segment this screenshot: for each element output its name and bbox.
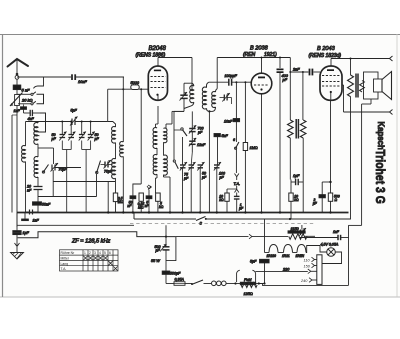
svg-text:70pF: 70pF — [59, 168, 68, 172]
svg-text:1150: 1150 — [291, 227, 300, 231]
wire avc junction — [90, 182, 115, 213]
field coil bypass link — [237, 270, 256, 282]
svg-text:5000: 5000 — [131, 81, 140, 85]
wire left return rail — [12, 115, 17, 213]
oscillator coil B (tuned) — [202, 82, 217, 212]
tube U1 B2048 — [148, 66, 167, 100]
svg-text:5: 5 — [104, 251, 106, 255]
svg-text:0,35A: 0,35A — [175, 278, 185, 282]
page left edge rule — [2, 34, 4, 297]
trimmer (tone corrector) — [299, 225, 306, 238]
switch lever (IF trim) — [96, 161, 101, 197]
svg-text:pF: pF — [197, 131, 203, 135]
wire osc section frame — [173, 125, 192, 169]
svg-text:ZF = 128,5 kHz: ZF = 128,5 kHz — [71, 239, 110, 245]
svg-text:20 kΩ: 20 kΩ — [21, 98, 33, 103]
capacitor 400pF — [277, 69, 284, 213]
variable capacitor C-gang 4 — [88, 132, 95, 141]
padder trimmer 75pF — [180, 162, 187, 213]
tuning coil L2 — [34, 122, 38, 158]
svg-text:1R230: 1R230 — [267, 254, 277, 258]
capacitor 50nF (block) — [33, 197, 42, 213]
padder trimmer 50pF b — [197, 162, 204, 213]
dashed screen line — [130, 222, 314, 224]
mains return line A — [17, 224, 362, 226]
pilot lamp 4,5V 0,05A — [322, 248, 342, 264]
svg-text:500µF: 500µF — [170, 272, 181, 276]
svg-text:240: 240 — [300, 279, 308, 283]
interstage transformer primary (zigzag) — [287, 58, 293, 180]
svg-text:B2048: B2048 — [149, 46, 167, 52]
switch contact (mid) — [235, 142, 239, 173]
capacitor 2nF (grid) — [289, 69, 320, 76]
wire coil tap — [38, 148, 54, 164]
svg-text:pF: pF — [201, 175, 207, 179]
pickup terminals T.A. — [235, 174, 239, 193]
svg-text:50nF: 50nF — [42, 203, 51, 207]
capacitor 100µµF (osc coupling) — [209, 79, 251, 86]
trimmer 12nF — [189, 138, 196, 152]
selector bar — [317, 255, 322, 285]
wire tube1 cathode to IF2 — [156, 106, 185, 129]
IF transformer 2 bottom windings — [148, 155, 170, 213]
capacitor 50nF (block, decoupling) — [130, 184, 141, 213]
svg-text:5 nF: 5 nF — [22, 88, 31, 93]
svg-text:1nF: 1nF — [33, 219, 40, 223]
bottom supply return — [258, 225, 349, 285]
heater chain arcs — [265, 219, 327, 253]
svg-text:pF: pF — [219, 175, 225, 179]
svg-text:110: 110 — [304, 258, 311, 262]
wire grid feed to tube1 — [108, 88, 149, 184]
output choke winding — [348, 59, 354, 220]
svg-text:5µF: 5µF — [250, 260, 257, 264]
resistor 5000 — [131, 85, 139, 90]
tuning gang: dashed coupling lines — [62, 141, 90, 213]
detector switch + trimmer 700pF — [181, 111, 196, 141]
trimmer 5pF — [70, 117, 108, 126]
capacitor (series on antenna coil bottom) — [26, 210, 39, 215]
svg-text:70pF: 70pF — [104, 170, 113, 174]
svg-text:5pF: 5pF — [71, 109, 78, 113]
oscillator trimmer B — [220, 93, 232, 104]
resistor 10kΩ (volume) — [225, 189, 237, 213]
decoupling line (stepped) — [18, 232, 176, 261]
capacitor 1nF (mains filter) — [300, 235, 349, 240]
svg-text:Ω: Ω — [335, 198, 338, 202]
voltage selector 240 — [300, 278, 317, 283]
IF transformer 1 primary lower — [112, 143, 116, 193]
svg-text:3: 3 — [94, 251, 96, 255]
svg-text:10nF: 10nF — [224, 120, 233, 124]
heater bus (lower) — [134, 213, 351, 221]
svg-text:6: 6 — [233, 138, 235, 142]
padder trimmer 50pF — [188, 162, 195, 213]
capacitor 1nF (block below pot) — [21, 105, 27, 114]
capacitor 5nF (black, mid) — [214, 134, 220, 166]
voltage selector 110 — [304, 257, 317, 262]
svg-text:Kapsch: Kapsch — [376, 122, 387, 150]
svg-text:10nF: 10nF — [78, 80, 87, 84]
resistor 0,15MΩ — [139, 193, 143, 213]
svg-text:1nF: 1nF — [14, 109, 21, 113]
tube V3 B2043 (output pentode) — [320, 66, 342, 100]
svg-text:pF: pF — [155, 249, 161, 253]
variable capacitor C-gang 1 — [59, 132, 66, 141]
IF transformer 1 secondary — [120, 77, 124, 213]
capacitor 5nF (antenna series) — [13, 85, 21, 94]
variable capacitor C-gang 3 — [79, 132, 86, 141]
capacitor 5nF (block, cathode) — [146, 186, 152, 213]
trimmer 70pF (IF) — [101, 160, 113, 169]
table row labels — [61, 251, 112, 271]
svg-text:4: 4 — [99, 251, 101, 255]
IF transformer 1 primary upper — [108, 89, 116, 143]
ground bus feeder (left, with 1µF) — [16, 213, 18, 231]
svg-text:4nF: 4nF — [28, 117, 35, 121]
oscillator coil A — [174, 83, 194, 125]
svg-text:MΩ: MΩ — [138, 205, 144, 209]
svg-text:1: 1 — [84, 251, 86, 255]
wire antenna node to coupling cap — [17, 76, 71, 78]
capacitor 10nF (antenna coupling) — [72, 74, 124, 80]
wire tube1 grid cap to oscillator coil — [158, 58, 192, 91]
main ground bus — [17, 211, 349, 213]
tube3 cathode resistor 500 — [328, 100, 332, 212]
svg-text:kΩ: kΩ — [159, 205, 164, 209]
svg-text:1REN: 1REN — [296, 254, 305, 258]
svg-text:Röhre Nr: Röhre Nr — [61, 251, 76, 255]
svg-text:B 2038: B 2038 — [250, 46, 269, 52]
tuning coil L3 — [34, 157, 38, 187]
svg-text:4,5V 0,05A: 4,5V 0,05A — [321, 243, 339, 247]
svg-text:1R21: 1R21 — [282, 254, 290, 258]
svg-text:125Ω: 125Ω — [244, 292, 253, 296]
svg-text:6: 6 — [109, 251, 111, 255]
barretter 1150 — [176, 231, 315, 240]
svg-text:MΩ: MΩ — [118, 200, 124, 204]
capacitor 1nF (to chassis) — [22, 213, 29, 221]
field winding Feld 1250 — [236, 282, 265, 287]
svg-text:pF: pF — [94, 137, 100, 141]
capacitor 10nF (black, mid) — [233, 119, 239, 143]
svg-text:100µµF: 100µµF — [225, 74, 238, 78]
valve table — [60, 250, 119, 271]
svg-text:pF: pF — [282, 78, 288, 82]
capacitor 5µF — [260, 259, 270, 284]
svg-text:1nF: 1nF — [333, 230, 340, 234]
page right edge rule — [396, 34, 398, 297]
svg-text:Mittel: Mittel — [61, 257, 69, 261]
tube2 anode load & grid caps — [261, 94, 263, 213]
antenna — [8, 59, 29, 85]
svg-text:2: 2 — [89, 251, 91, 255]
capacitor 1µF (T.A.) — [234, 193, 240, 213]
wire osc grid junctions — [235, 81, 246, 142]
trimmer 70pF (left) — [51, 163, 82, 172]
tube V2 B2038 (triode) — [251, 73, 272, 94]
wave switch contact (4nF branch) — [34, 113, 46, 136]
svg-text:2nF: 2nF — [292, 68, 300, 72]
switch S (mains) — [196, 217, 207, 221]
capacitor 2µF (bias) — [319, 182, 331, 213]
svg-text:pF: pF — [51, 137, 57, 141]
mains link + 220 line — [256, 269, 317, 274]
padder trimmer 100pF — [214, 162, 221, 213]
wire tube2 top rail — [217, 57, 290, 89]
antenna coil L1 — [22, 122, 26, 212]
wire tube3 top rail to phones terminal — [331, 56, 393, 66]
interstage transformer core — [296, 119, 298, 139]
mains switch — [185, 280, 211, 285]
wave switch contact loop (pot) — [17, 92, 44, 105]
svg-text:Triohet 3 G: Triohet 3 G — [373, 150, 387, 204]
resistor 1MΩ — [243, 143, 247, 213]
switch contact (antenna tap) — [34, 78, 44, 89]
resistor 10kΩ (bias) — [289, 193, 293, 219]
svg-text:1µF: 1µF — [23, 231, 30, 235]
svg-text:5nF: 5nF — [222, 134, 229, 138]
loudspeaker — [360, 72, 392, 226]
svg-text:220: 220 — [282, 267, 290, 271]
variable capacitor C-gang 2 — [68, 132, 75, 141]
svg-text:55 W: 55 W — [151, 259, 160, 263]
resistor 5kΩ — [156, 193, 161, 213]
wire avc line — [38, 170, 97, 197]
capacitor 500µF (electrolytic) — [162, 271, 170, 284]
svg-text:1µF: 1µF — [293, 174, 300, 178]
capacitor 1µF (interstage) — [291, 179, 303, 213]
svg-text:12nF: 12nF — [197, 143, 206, 147]
resistor 0,5 MΩ — [113, 193, 117, 213]
potentiometer 20kΩ — [10, 93, 23, 228]
svg-text:T.A.: T.A. — [61, 267, 67, 271]
interstage transformer secondary (zigzag) — [300, 71, 306, 180]
page top edge rule — [0, 0, 400, 34]
voltage selector 150 — [304, 263, 317, 268]
capacitor 1µF (to ground) — [13, 231, 21, 235]
svg-text:T.A.: T.A. — [234, 182, 241, 186]
svg-text:Lang: Lang — [61, 262, 69, 266]
table X marks — [84, 256, 118, 271]
svg-text:Feld: Feld — [244, 278, 252, 282]
wire grid line top (band filter) — [26, 121, 73, 123]
capacitor 500pF (tone) — [160, 225, 170, 270]
transformer primary coil — [212, 281, 237, 286]
page bottom edge rule — [0, 296, 400, 298]
svg-text:B 2043: B 2043 — [317, 46, 336, 52]
capacitor 4nF — [24, 110, 41, 116]
ground — [11, 235, 24, 259]
switch wave range — [42, 165, 48, 174]
IF transformer 2 top windings — [153, 128, 167, 156]
transformer core — [356, 74, 358, 98]
fuse 0,35A — [166, 282, 185, 286]
wire 2nd phones terminal line — [342, 85, 393, 115]
svg-text:pF: pF — [183, 176, 189, 180]
svg-text:kΩ: kΩ — [294, 198, 299, 202]
svg-text:150: 150 — [304, 264, 311, 268]
svg-text:1MΩ: 1MΩ — [250, 146, 258, 150]
svg-text:kΩ: kΩ — [219, 198, 224, 202]
oscillator tank A trimmer — [180, 83, 188, 111]
capacitor 20nF — [34, 187, 43, 197]
